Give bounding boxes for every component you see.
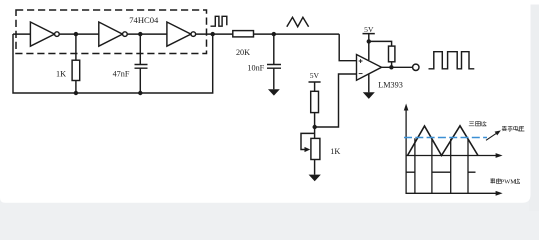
5V supply pot branch [309,82,321,91]
node after U1A [74,32,78,36]
label 输出PWM波 (output PWM wave) [490,178,501,183]
output terminal circle [413,64,419,70]
waveform diagram [404,104,503,196]
node [74,91,78,95]
resistor R4 [311,91,319,112]
PWM low segments [406,171,475,173]
svg-text:20K: 20K [236,48,250,57]
node osc out [211,32,215,36]
capacitor C1 47nF [135,34,148,93]
label 参考电压 (reference voltage) [502,126,525,131]
op-amp U2 LM393 [357,55,382,81]
PWM crossing verticals [415,138,468,193]
resistor R1 1K [72,60,80,80]
upper time axis [406,155,496,157]
inverter U1C [167,22,196,46]
potentiometer RP1 1K [311,138,320,159]
wire [127,33,167,35]
minus input symbol [359,73,363,75]
square wave symbol [211,16,227,26]
annotation arrow to ref label [486,133,498,141]
triangle wave symbol [287,17,309,26]
wire feedback loop left/bottom/right [13,34,213,93]
y axis [405,108,407,194]
label 三角波 (triangle wave) [469,121,487,126]
PWM wave symbol [429,52,475,69]
white canvas card [0,0,539,5]
reference voltage dashed line [404,137,487,139]
lower time axis [406,192,496,194]
ground stem op-amp [368,70,370,92]
svg-text:1K: 1K [330,147,340,156]
wire to plus input [339,34,356,61]
node pot [313,125,317,129]
wire oscillator output [196,33,233,35]
wire pot to minus input [315,74,357,127]
wire input to inverter 1 [13,33,30,35]
node [138,91,142,95]
node output [389,65,393,69]
wiper wire [301,133,315,149]
triangle waveform [408,126,479,156]
wire [75,34,77,60]
svg-text:1K: 1K [56,69,66,78]
wire output [382,66,413,68]
resistor R2 20K [233,31,254,37]
plus input symbol [359,59,363,63]
inverter U1A [30,22,59,46]
wire to pullup [369,41,392,46]
dashed box 74HC04 [16,10,207,54]
wire [254,33,340,35]
inverter U1B [99,22,127,46]
svg-text:5V: 5V [364,25,374,34]
node RC [272,32,276,36]
ground [309,175,321,182]
wire [59,33,99,35]
svg-text:LM393: LM393 [378,81,403,90]
resistor R3 pull-up [389,46,395,62]
ground [268,89,280,95]
5V supply comparator [363,34,375,60]
svg-text:10nF: 10nF [247,64,264,73]
capacitor C2 10nF [267,34,281,89]
svg-text:47nF: 47nF [113,69,130,78]
svg-text:PWM: PWM [501,179,517,186]
ground [363,92,375,99]
CJK-like tiny labels drawn as strokes [469,121,525,183]
svg-text:74HC04: 74HC04 [129,15,159,25]
svg-text:5V: 5V [310,71,320,80]
node after U1B [138,32,142,36]
